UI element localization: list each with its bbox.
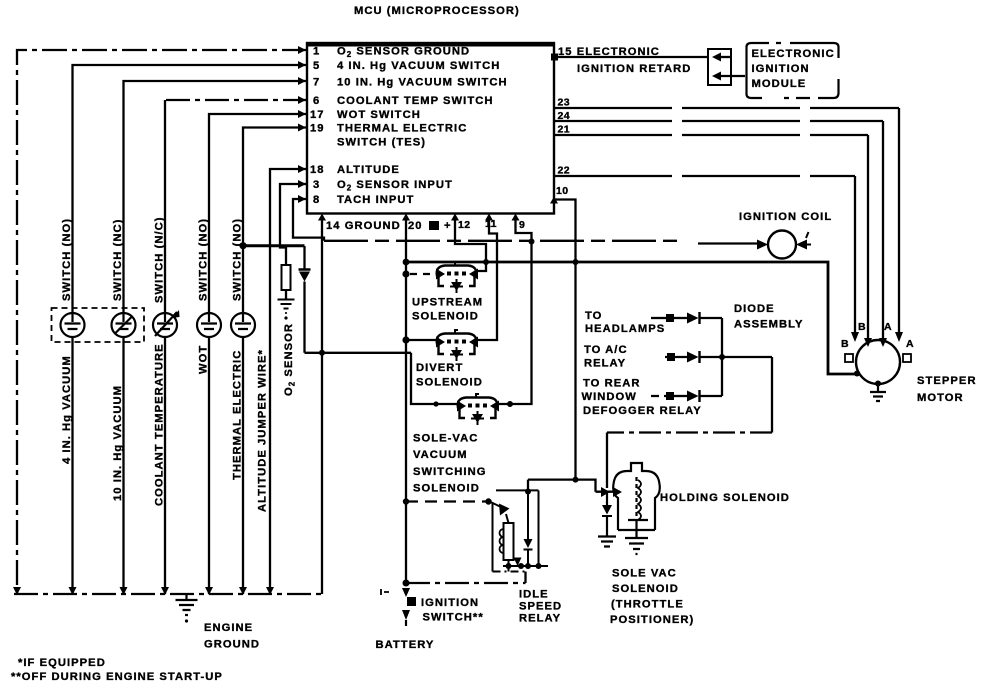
svg-text:B: B: [841, 338, 849, 350]
svg-text:SWITCH (NO): SWITCH (NO): [232, 218, 244, 301]
svg-text:MCU (MICROPROCESSOR): MCU (MICROPROCESSOR): [354, 5, 520, 17]
svg-text:SWITCH (N/C): SWITCH (N/C): [154, 216, 166, 303]
svg-text:THERMAL ELECTRIC: THERMAL ELECTRIC: [337, 123, 467, 135]
svg-text:MODULE: MODULE: [752, 78, 807, 90]
svg-text:SOLE-VAC: SOLE-VAC: [413, 433, 478, 445]
svg-text:DEFOGGER RELAY: DEFOGGER RELAY: [583, 405, 702, 417]
svg-text:SOLENOID: SOLENOID: [416, 377, 483, 389]
svg-text:O2 SENSOR INPUT: O2 SENSOR INPUT: [337, 179, 453, 193]
svg-text:ALTITUDE: ALTITUDE: [337, 164, 400, 176]
svg-text:RELAY: RELAY: [584, 358, 626, 370]
svg-text:10 IN. Hg VACUUM: 10 IN. Hg VACUUM: [112, 385, 124, 501]
svg-text:A: A: [906, 338, 914, 350]
svg-text:10: 10: [556, 185, 568, 197]
svg-text:SWITCH (TES): SWITCH (TES): [337, 137, 426, 149]
svg-text:21: 21: [558, 124, 570, 136]
svg-text:IGNITION COIL: IGNITION COIL: [739, 211, 832, 223]
svg-text:9: 9: [519, 219, 525, 231]
svg-text:ASSEMBLY: ASSEMBLY: [734, 319, 804, 331]
svg-text:SWITCHING: SWITCHING: [413, 466, 486, 478]
svg-text:SOLENOID: SOLENOID: [413, 483, 480, 495]
svg-text:10 IN. Hg VACUUM SWITCH: 10 IN. Hg VACUUM SWITCH: [337, 77, 508, 89]
svg-text:SWITCH (NC): SWITCH (NC): [112, 219, 124, 301]
svg-text:11: 11: [485, 218, 497, 230]
svg-text:TO A/C: TO A/C: [584, 344, 628, 356]
svg-text:MOTOR: MOTOR: [917, 392, 964, 404]
svg-text:SWITCH**: SWITCH**: [423, 612, 484, 624]
svg-text:GROUND: GROUND: [204, 639, 260, 651]
svg-text:4 IN. Hg VACUUM: 4 IN. Hg VACUUM: [61, 355, 73, 464]
svg-text:22: 22: [558, 165, 570, 177]
svg-text:SWITCH (NO): SWITCH (NO): [61, 218, 73, 301]
svg-text:SOLE VAC: SOLE VAC: [612, 568, 677, 580]
svg-text:TO: TO: [585, 310, 602, 322]
svg-text:A: A: [884, 321, 892, 333]
svg-text:19: 19: [310, 123, 325, 135]
svg-text:8: 8: [313, 194, 320, 206]
svg-text:18: 18: [310, 164, 325, 176]
svg-text:HOLDING SOLENOID: HOLDING SOLENOID: [660, 492, 790, 504]
svg-text:24: 24: [558, 110, 570, 122]
svg-text:23: 23: [558, 97, 570, 109]
svg-text:THERMAL ELECTRIC: THERMAL ELECTRIC: [232, 350, 244, 480]
svg-text:**OFF DURING ENGINE START-UP: **OFF DURING ENGINE START-UP: [11, 671, 223, 683]
svg-text:14 GROUND: 14 GROUND: [326, 220, 401, 232]
svg-text:SPEED: SPEED: [519, 601, 562, 613]
svg-text:17: 17: [310, 109, 325, 121]
svg-text:ELECTRONIC: ELECTRONIC: [752, 48, 835, 60]
svg-text:WINDOW: WINDOW: [582, 391, 637, 403]
svg-text:DIODE: DIODE: [734, 303, 775, 315]
svg-text:STEPPER: STEPPER: [917, 375, 977, 387]
svg-text:3: 3: [313, 179, 320, 191]
svg-text:COOLANT TEMPERATURE: COOLANT TEMPERATURE: [154, 343, 166, 506]
svg-text:RELAY: RELAY: [519, 613, 561, 625]
svg-text:7: 7: [313, 77, 320, 89]
svg-text:TO REAR: TO REAR: [583, 378, 641, 390]
svg-text:15 ELECTRONIC: 15 ELECTRONIC: [558, 46, 660, 58]
svg-text:BATTERY: BATTERY: [376, 639, 435, 651]
svg-text:1: 1: [313, 46, 320, 58]
svg-text:(THROTTLE: (THROTTLE: [611, 599, 684, 611]
svg-text:WOT SWITCH: WOT SWITCH: [337, 109, 421, 121]
svg-text:5: 5: [313, 60, 320, 72]
svg-text:IDLE: IDLE: [519, 589, 549, 601]
svg-text:VACUUM: VACUUM: [413, 449, 468, 461]
svg-text:TACH INPUT: TACH INPUT: [337, 194, 414, 206]
svg-text:*IF EQUIPPED: *IF EQUIPPED: [18, 657, 106, 669]
svg-text:20: 20: [408, 220, 423, 232]
svg-text:B: B: [858, 321, 866, 333]
svg-text:DIVERT: DIVERT: [416, 362, 463, 374]
svg-text:ALTITUDE JUMPER WIRE*: ALTITUDE JUMPER WIRE*: [257, 349, 269, 512]
svg-text:COOLANT TEMP SWITCH: COOLANT TEMP SWITCH: [337, 95, 493, 107]
svg-text:O2 SENSOR GROUND: O2 SENSOR GROUND: [337, 46, 470, 60]
svg-text:UPSTREAM: UPSTREAM: [412, 297, 483, 309]
svg-text:IGNITION RETARD: IGNITION RETARD: [577, 63, 691, 75]
svg-text:WOT: WOT: [198, 345, 210, 374]
svg-text:SWITCH (NO): SWITCH (NO): [198, 218, 210, 301]
svg-text:IGNITION: IGNITION: [752, 63, 810, 75]
svg-text:HEADLAMPS: HEADLAMPS: [585, 323, 665, 335]
svg-text:POSITIONER): POSITIONER): [610, 614, 694, 626]
svg-text:+: +: [444, 220, 452, 232]
svg-text:IGNITION: IGNITION: [421, 597, 479, 609]
svg-text:12: 12: [458, 219, 470, 231]
svg-text:6: 6: [313, 95, 320, 107]
svg-text:SOLENOID: SOLENOID: [412, 311, 479, 323]
svg-text:SOLENOID: SOLENOID: [612, 583, 679, 595]
svg-text:ENGINE: ENGINE: [204, 622, 253, 634]
svg-text:4 IN. Hg VACUUM SWITCH: 4 IN. Hg VACUUM SWITCH: [337, 60, 500, 72]
